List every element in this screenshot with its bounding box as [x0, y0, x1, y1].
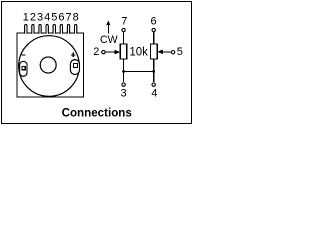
resistor R2 — [151, 44, 158, 59]
CW arrow — [107, 24, 109, 34]
border frame — [2, 2, 192, 124]
svg-text:5: 5 — [51, 12, 57, 24]
terminal 2 — [102, 50, 105, 53]
terminal 6 — [152, 28, 155, 31]
svg-text:3: 3 — [37, 12, 43, 24]
junction node 3 — [122, 70, 125, 73]
terminal 7 — [122, 28, 125, 31]
svg-text:7: 7 — [65, 12, 71, 24]
bottom bus wire — [124, 70, 154, 72]
pin 8 (package) — [74, 24, 76, 33]
svg-text:4: 4 — [44, 12, 50, 24]
svg-text:10k: 10k — [129, 47, 148, 59]
svg-text:CW: CW — [100, 34, 118, 46]
svg-text:4: 4 — [151, 88, 157, 100]
left screw slot — [22, 67, 25, 70]
resistor R1 — [120, 44, 127, 59]
svg-text:3: 3 — [121, 88, 127, 100]
wire R2 bottom — [153, 59, 155, 71]
stub to terminal 3 — [123, 71, 125, 82]
pin 6 (package) — [60, 24, 62, 33]
svg-text:5: 5 — [177, 46, 183, 58]
wire 7 to R1 — [123, 32, 125, 44]
left screw housing — [20, 61, 27, 76]
right screw slot — [74, 64, 78, 68]
svg-text:2: 2 — [93, 46, 99, 58]
terminal 3 — [122, 83, 125, 86]
center hole — [40, 57, 56, 73]
pin 5 (package) — [53, 24, 55, 33]
pin 7 (package) — [67, 24, 69, 33]
wire 5 wiper — [163, 51, 172, 53]
potentiometer package body — [17, 33, 84, 97]
svg-text:8: 8 — [73, 12, 79, 24]
stub to terminal 4 — [153, 71, 155, 82]
pin 4 (package) — [46, 24, 48, 33]
svg-text:6: 6 — [150, 15, 156, 27]
terminal 5 — [171, 51, 174, 54]
pin 2 (package) — [32, 24, 34, 33]
wire 6 to R2 — [153, 32, 155, 44]
rotor circle — [19, 36, 80, 97]
svg-text:1: 1 — [23, 12, 29, 24]
svg-text:6: 6 — [58, 12, 64, 24]
minus mark — [22, 54, 26, 56]
svg-text:7: 7 — [121, 15, 127, 27]
svg-text:Connections: Connections — [62, 106, 132, 119]
right screw housing — [70, 60, 79, 75]
wire R1 bottom — [123, 59, 125, 71]
junction node 4 — [152, 70, 155, 73]
wire 2 wiper — [105, 51, 115, 53]
svg-text:2: 2 — [30, 12, 36, 24]
terminal 4 — [152, 83, 155, 86]
pin 1 (package) — [25, 24, 27, 33]
plus mark — [71, 54, 75, 56]
pin 3 (package) — [39, 24, 41, 33]
